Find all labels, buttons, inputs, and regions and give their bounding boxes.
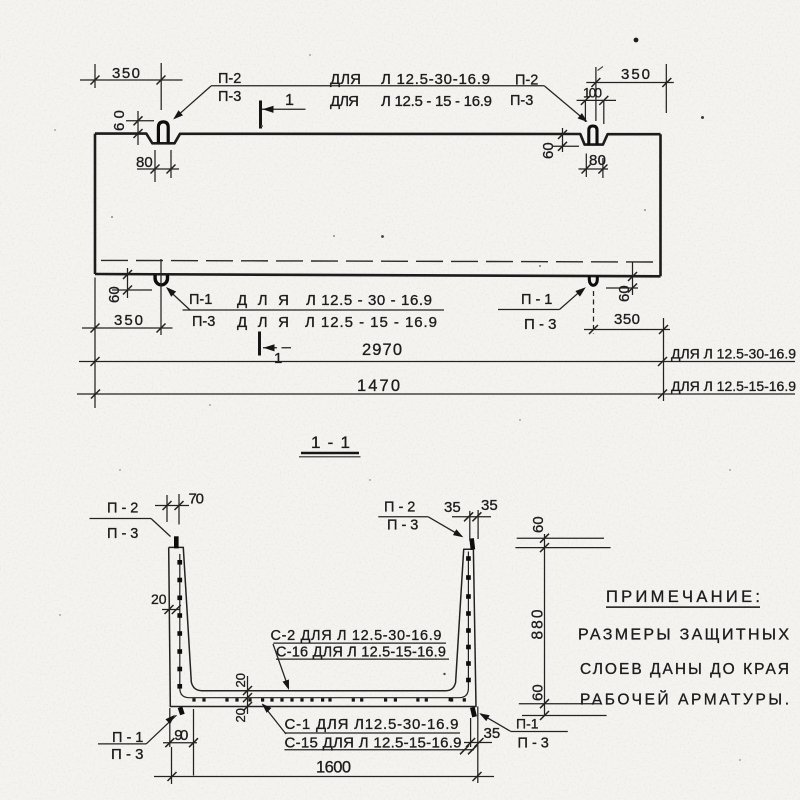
section mark 1 top: arrow line xyxy=(262,108,306,110)
dim 80 top-right: dimension line xyxy=(579,168,609,170)
dim 60 top-left: dimension line xyxy=(137,111,139,145)
dim 35 bottom-right: ext line left xyxy=(470,718,472,747)
ticks 350 bottom-right xyxy=(589,325,668,334)
arrowhead section mark top xyxy=(263,106,274,113)
svg-text:П-1: П-1 xyxy=(189,292,212,308)
svg-text:350: 350 xyxy=(614,311,640,328)
ticks 35 bottom-right xyxy=(466,738,483,747)
ticks C-15 end xyxy=(460,745,477,754)
underline P-1 bottom-left xyxy=(98,743,146,745)
dimension slash ticks plan view xyxy=(91,76,672,399)
dim 350 bottom-left: ext line through loop axis xyxy=(160,259,162,335)
dim 90: ext line left xyxy=(169,708,171,747)
dim 2970: dimension line xyxy=(79,361,795,363)
dim 70: ext line left xyxy=(166,495,168,522)
section mark 1 bottom: arrow line xyxy=(263,347,291,349)
lifting loop P-2 top-right xyxy=(589,126,597,145)
ticks 1470 xyxy=(91,390,667,399)
dim 80 top-right: ext line right xyxy=(602,158,604,178)
svg-text:60: 60 xyxy=(616,285,633,302)
ticks 60 bottom-right xyxy=(628,272,637,293)
hidden dashed line near bottom edge xyxy=(101,260,657,262)
dim 60 bottom-left: dimension line xyxy=(127,268,129,298)
ticks 80 top-right xyxy=(582,165,608,174)
svg-text:80: 80 xyxy=(136,154,153,171)
ticks 2970 xyxy=(91,357,668,366)
svg-text:ДЛЯ Л 12.5-30-16.9: ДЛЯ Л 12.5-30-16.9 xyxy=(671,346,796,362)
svg-text:РАЗМЕРЫ ЗАЩИТНЫХ: РАЗМЕРЫ ЗАЩИТНЫХ xyxy=(578,627,789,644)
svg-text:350: 350 xyxy=(112,65,140,82)
dim 90: dimension line xyxy=(163,742,197,744)
dim 350 top-right: dimension line xyxy=(586,82,674,84)
svg-text:1: 1 xyxy=(285,92,294,109)
svg-text:90: 90 xyxy=(174,727,188,744)
reinforcement mesh line (walls and slab) xyxy=(180,552,469,698)
dim 70: dimension line xyxy=(155,505,189,507)
arrowheads section xyxy=(165,529,489,724)
dim 1600: ext line left xyxy=(171,747,173,784)
dim 20 slab: dimension line vertical xyxy=(247,676,249,714)
dim 20 left wall: dimension line xyxy=(162,609,180,611)
underline P-2/P-3 left labels xyxy=(90,518,152,520)
svg-text:60: 60 xyxy=(106,286,123,303)
dim 1600: dimension line xyxy=(154,776,494,778)
ext line at bar top level xyxy=(517,537,604,539)
leader to left wall top xyxy=(151,519,171,537)
ticks 350 top-right xyxy=(591,78,671,87)
rebar end bar P-1 at bottom-left corner xyxy=(180,707,182,714)
section mark 1 top: thick bar xyxy=(259,101,262,129)
svg-text:ДЛЯ: ДЛЯ xyxy=(330,71,361,88)
channel cross-section outline xyxy=(169,547,476,706)
svg-text:П - 3: П - 3 xyxy=(518,736,549,752)
svg-text:20: 20 xyxy=(233,673,248,687)
dim 350 top-left: dimension line xyxy=(80,79,183,81)
svg-text:60: 60 xyxy=(530,684,547,701)
dim 100: ext line left xyxy=(584,100,586,122)
dim 60 bottom-right: dimension line xyxy=(632,262,634,295)
underline of bottom label row left xyxy=(183,309,445,311)
svg-text:Л 12.5 - 15 - 16.9: Л 12.5 - 15 - 16.9 xyxy=(381,93,492,110)
plan view texts xyxy=(106,65,796,395)
svg-text:П - 3: П - 3 xyxy=(387,518,418,534)
arrowhead at top-right loop xyxy=(578,113,590,125)
arrowhead at bottom-left loop xyxy=(164,284,177,296)
dim 350 top-left: ext line at panel edge xyxy=(94,64,96,88)
ext line at P-1 bar tip level xyxy=(522,715,607,717)
ticks 20 left wall xyxy=(165,605,181,614)
svg-text:70: 70 xyxy=(189,491,205,508)
svg-text:880: 880 xyxy=(530,609,547,639)
svg-text:60: 60 xyxy=(530,516,547,533)
ticks 35-35 xyxy=(464,512,481,521)
underline C-15 row with right extension xyxy=(285,749,475,751)
svg-text:1 - 1: 1 - 1 xyxy=(311,433,350,452)
rebar end bar P-2 at left wall top xyxy=(174,536,179,548)
underline of bottom right P-1 label xyxy=(498,309,560,311)
title underline thin xyxy=(299,456,361,458)
svg-text:П - 3: П - 3 xyxy=(111,746,143,763)
rebar end bar P-2 at right wall top xyxy=(472,538,473,549)
panel right edge xyxy=(659,134,662,276)
ticks 350 top-left xyxy=(91,76,166,85)
rebar end bar P-1 at bottom-right corner xyxy=(472,707,474,717)
dim 35-35: ext line left xyxy=(469,511,471,541)
svg-text:П - 2: П - 2 xyxy=(384,500,415,516)
svg-text:350: 350 xyxy=(621,66,650,83)
arrowheads plan view xyxy=(164,106,590,352)
dim 35-35: ext line right xyxy=(477,510,479,539)
svg-text:П-3: П-3 xyxy=(510,93,533,109)
ticks 60 top-right xyxy=(558,130,567,151)
svg-text:35: 35 xyxy=(444,499,461,516)
underline C-1 row xyxy=(285,732,461,734)
dim 350 top-left: ext line at loop axis xyxy=(160,63,162,110)
svg-text:ПРИМЕЧАНИЕ:: ПРИМЕЧАНИЕ: xyxy=(606,588,760,606)
dim 100: dimension line xyxy=(577,99,616,101)
leader to top-left loop xyxy=(175,86,212,118)
dim 80 top-left: dimension line xyxy=(137,168,179,170)
panel top edge with two loop recesses xyxy=(95,134,661,145)
left wall rebar dots xyxy=(177,560,182,689)
svg-text:Л 12.5 - 15 - 16.9: Л 12.5 - 15 - 16.9 xyxy=(305,314,437,331)
ticks 100 xyxy=(581,96,608,105)
ticks 350 bottom-left xyxy=(91,324,166,333)
svg-text:60: 60 xyxy=(540,142,557,159)
underline C-2 row xyxy=(273,642,446,644)
dim 35 bottom-right: dimension line xyxy=(464,742,492,744)
dim 60 top-right: dimension line xyxy=(562,128,564,152)
lifting loop P-1 bottom-right xyxy=(589,276,597,286)
svg-text:ДЛЯ Л 12.5-15-16.9: ДЛЯ Л 12.5-15-16.9 xyxy=(671,378,796,394)
dim 350 top-right: ext line at loop axis xyxy=(595,67,597,121)
leader to bottom-right loop xyxy=(560,289,584,310)
ticks 1600 xyxy=(168,772,482,781)
ticks 90 xyxy=(165,738,198,747)
section texts xyxy=(107,491,549,777)
svg-text:П - 3: П - 3 xyxy=(524,316,556,333)
svg-text:П-3: П-3 xyxy=(218,89,241,105)
dim 350 bottom-right: dashed ext at loop axis xyxy=(593,291,595,334)
dim 80 top-left: ext line right xyxy=(170,150,172,178)
lifting loop P-1 bottom-left xyxy=(155,275,167,285)
dim 80 top-left: ext line left xyxy=(154,150,156,182)
svg-text:Л 12.5-30-16.9: Л 12.5-30-16.9 xyxy=(381,71,490,88)
ext line left edge down to overall dims xyxy=(94,278,96,409)
dim 35-35: dimension line xyxy=(452,516,491,518)
svg-text:С-15 ДЛЯ Л 12.5-15-16.9: С-15 ДЛЯ Л 12.5-15-16.9 xyxy=(285,735,462,752)
ext line right down to overall dims xyxy=(663,318,665,401)
dim 100: ext line right xyxy=(603,100,605,124)
svg-text:20: 20 xyxy=(151,591,167,607)
svg-text:СЛОЕВ ДАНЫ ДО КРАЯ: СЛОЕВ ДАНЫ ДО КРАЯ xyxy=(580,661,789,678)
arrowhead C-2 leader xyxy=(283,679,293,691)
svg-text:П - 1: П - 1 xyxy=(112,730,143,746)
dimension slash ticks section xyxy=(163,501,550,781)
underline C-16 row xyxy=(276,658,449,660)
section mark 1 bottom: thick bar xyxy=(258,332,261,356)
ext line at wall top level xyxy=(515,547,610,549)
dim 60 bottom-left: ext line at loop bottom xyxy=(112,289,152,291)
svg-text:П-1: П-1 xyxy=(516,716,539,732)
arrowhead P-1 bottom-left leader xyxy=(165,712,177,724)
leader to bottom-left loop xyxy=(169,290,191,310)
svg-text:20: 20 xyxy=(233,708,248,722)
svg-text:Л 12.5 - 30 - 16.9: Л 12.5 - 30 - 16.9 xyxy=(306,292,432,309)
lifting loop P-2 top-left xyxy=(158,122,168,143)
svg-text:350: 350 xyxy=(114,312,143,329)
dim 350 bottom-left: dimension line xyxy=(82,327,173,329)
ink specks on scan xyxy=(54,38,741,761)
svg-text:П-3: П-3 xyxy=(192,314,215,330)
underline of top label row and leader start xyxy=(211,85,545,87)
dim 350 bottom-right: dimension line xyxy=(584,329,670,331)
svg-text:П - 3: П - 3 xyxy=(107,526,138,542)
dim 350 top-right: ext line right xyxy=(665,64,667,113)
ticks 20 slab xyxy=(243,686,252,711)
panel bottom edge xyxy=(95,274,661,276)
svg-text:2970: 2970 xyxy=(362,341,402,359)
ticks 80 top-left xyxy=(151,165,176,174)
leader P-1 bottom-left xyxy=(146,715,176,744)
ext line right wall outer down to 1600 xyxy=(477,707,479,784)
svg-text:П-2: П-2 xyxy=(218,71,241,87)
dim 70: ext line right xyxy=(178,494,180,525)
leader C-2 to slab mesh xyxy=(273,644,289,688)
svg-text:П-2: П-2 xyxy=(515,73,538,89)
ticks 70 xyxy=(163,501,184,510)
slab rebar dots xyxy=(192,698,466,701)
leader P-1 bottom-right xyxy=(481,714,511,732)
arrowhead P-1 bottom-right leader xyxy=(478,710,490,721)
svg-text:100: 100 xyxy=(583,86,602,101)
svg-text:С-16 ДЛЯ Л 12.5-15-16.9: С-16 ДЛЯ Л 12.5-15-16.9 xyxy=(276,645,446,661)
underline P-2/P-3 right labels xyxy=(378,516,428,518)
dim 90: ext line right xyxy=(193,709,195,776)
arrowhead at right wall top leader xyxy=(453,529,465,540)
dim 60 top-right: ext line at recess bottom xyxy=(553,145,579,147)
ext line at slab bottom level xyxy=(519,703,602,705)
arrowhead at top-left loop xyxy=(171,110,183,122)
arrowhead at bottom-right loop xyxy=(575,284,588,296)
arrowhead section mark bottom xyxy=(264,344,275,351)
dim 60 top-left: ext line at loop top xyxy=(126,120,154,122)
panel left edge xyxy=(94,134,97,274)
svg-text:РАБОЧЕЙ АРМАТУРЫ.: РАБОЧЕЙ АРМАТУРЫ. xyxy=(580,691,789,709)
svg-text:С-2 ДЛЯ Л 12.5-30-16.9: С-2 ДЛЯ Л 12.5-30-16.9 xyxy=(271,628,442,644)
svg-text:6 0: 6 0 xyxy=(111,110,128,131)
title underline thick xyxy=(301,452,359,455)
leader to right wall top xyxy=(428,517,461,536)
leader C-1 to slab mesh xyxy=(263,704,287,734)
dim 80 top-right: ext line left xyxy=(585,154,587,178)
svg-text:Д Л Я: Д Л Я xyxy=(237,314,289,331)
svg-text:ДЛЯ: ДЛЯ xyxy=(330,93,359,110)
leader to top-right loop xyxy=(545,86,586,121)
note title underline xyxy=(606,606,760,608)
right wall rebar dots xyxy=(449,556,471,701)
dim 60 bottom-right: ext line at loop bottom xyxy=(606,287,638,289)
svg-text:80: 80 xyxy=(589,152,606,169)
svg-text:35: 35 xyxy=(481,497,498,514)
svg-text:П - 1: П - 1 xyxy=(521,292,552,308)
svg-text:1600: 1600 xyxy=(316,759,351,777)
ticks 60 bottom-left xyxy=(123,270,132,295)
svg-text:1: 1 xyxy=(274,350,282,367)
ticks 60 top-left xyxy=(134,116,143,138)
underline P-1 bottom-right xyxy=(511,731,568,733)
svg-text:35: 35 xyxy=(484,725,501,742)
arrowhead C-1 leader xyxy=(259,701,271,713)
ticks right stack xyxy=(540,534,549,720)
svg-text:П - 2: П - 2 xyxy=(107,501,138,517)
dim 1470: dimension line xyxy=(77,393,795,395)
right stack dimension line (60/880/60) xyxy=(544,534,546,716)
svg-text:Д Л Я: Д Л Я xyxy=(237,292,289,309)
svg-text:С-1 ДЛЯ Л12.5-30-16.9: С-1 ДЛЯ Л12.5-30-16.9 xyxy=(285,716,459,733)
